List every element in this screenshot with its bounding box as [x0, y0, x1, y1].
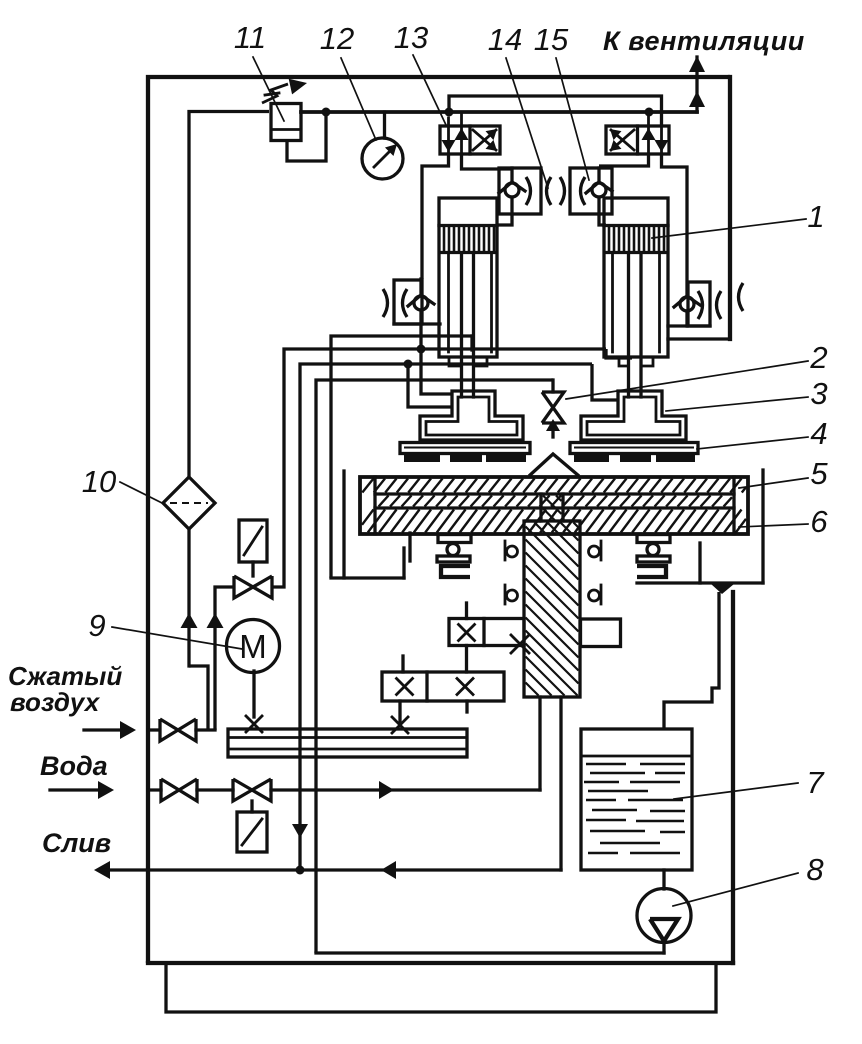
node supply junction	[322, 108, 331, 117]
directional valve 13 left	[440, 126, 500, 154]
check valve right side	[688, 282, 710, 326]
piston rod left	[460, 253, 463, 397]
wire right valve down right side	[662, 154, 688, 297]
svg-text:7: 7	[806, 765, 825, 800]
wire gearbox to screw clutch	[398, 701, 401, 724]
wire exhaust link line	[449, 96, 662, 126]
check valve left side	[394, 280, 422, 324]
node junction check-line	[417, 345, 426, 354]
svg-text:12: 12	[320, 21, 354, 56]
node junction feed-left-head	[404, 360, 413, 369]
check valve top-left	[499, 168, 541, 214]
svg-text:10: 10	[82, 464, 116, 499]
water inlet arrow	[50, 788, 104, 791]
wire motor shaft	[252, 671, 255, 717]
svg-text:2: 2	[809, 340, 827, 375]
cylinder left inner bore walls	[447, 253, 450, 352]
svg-text:11: 11	[234, 20, 266, 55]
gearbox upper (worm drive)	[449, 619, 524, 646]
pads right	[574, 454, 609, 462]
air filter 10	[163, 477, 215, 529]
wire air to control valve	[215, 587, 234, 730]
svg-text:Вода: Вода	[40, 751, 108, 781]
column bearing glyphs p q	[504, 541, 507, 560]
wire pump discharge line	[316, 951, 664, 954]
centering cone on table	[529, 454, 579, 476]
grinding head right	[581, 391, 686, 440]
check valve top-right	[570, 168, 612, 214]
wire riser pipe A	[272, 349, 606, 587]
wire top check valve to cylinder	[497, 214, 512, 225]
wire right circuit enclosure	[668, 337, 730, 340]
wire riser pipe D head line	[331, 336, 472, 578]
machine pedestal base	[166, 965, 716, 1012]
svg-text:4: 4	[810, 416, 827, 451]
cylinder right inner bore walls	[611, 253, 614, 352]
wire left valve to left check valve	[422, 154, 449, 279]
svg-text:1: 1	[807, 199, 824, 234]
piston left (hatched band)	[441, 251, 495, 254]
wire regulator bypass loop	[287, 114, 326, 161]
gearbox lower	[382, 672, 504, 701]
compressed air inlet arrow	[84, 728, 126, 731]
svg-text:3: 3	[810, 376, 827, 411]
frame junction triangle	[711, 584, 734, 594]
wire left valve to top check valve	[462, 154, 513, 169]
wire vent line to ventilation	[695, 57, 698, 112]
water control valve with actuator	[197, 788, 233, 791]
clutch X on column	[511, 635, 529, 653]
pressure regulator 11	[271, 104, 301, 141]
svg-text:К вентиляции: К вентиляции	[603, 26, 805, 56]
svg-text:Слив: Слив	[42, 828, 111, 858]
wire water line to spindle	[271, 788, 540, 791]
electric motor 9	[227, 620, 280, 673]
piston right (hatched band)	[606, 251, 666, 254]
directional valve right (15 group)	[606, 126, 669, 154]
lap plate left	[400, 443, 530, 454]
node drain junction	[296, 866, 305, 875]
piston rod right	[627, 253, 630, 397]
wire spindle coolant lines	[538, 697, 541, 790]
pressure gauge 12	[383, 112, 386, 138]
spindle column (hatched)	[539, 494, 542, 521]
svg-text:5: 5	[810, 456, 828, 491]
wire top-right check valve to cylinder	[599, 214, 606, 225]
valve 2 between heads	[551, 380, 554, 392]
cylinder left bottom steps	[449, 357, 461, 366]
grinding head left 3	[420, 391, 523, 440]
coolant tank 7	[581, 729, 692, 870]
control valve with actuator	[239, 520, 267, 562]
cylinder right bottom steps	[619, 357, 628, 366]
node junction left valve	[445, 108, 454, 117]
lap plate right	[570, 443, 698, 454]
machine cabinet outer frame	[148, 77, 730, 963]
wire main air line	[301, 110, 697, 114]
svg-text:8: 8	[806, 852, 824, 887]
wire left head feed drops	[408, 364, 452, 407]
pneumatic cylinder right 1	[604, 198, 668, 357]
svg-text:воздух: воздух	[10, 687, 101, 717]
shutoff valve water 1	[148, 788, 161, 791]
wire inner border riser	[189, 112, 269, 478]
bracket right of column	[581, 619, 621, 647]
svg-text:M: M	[239, 628, 267, 665]
node junction right valve	[645, 108, 654, 117]
svg-text:15: 15	[534, 22, 569, 57]
pneumatic cylinder left	[439, 198, 497, 357]
table slide frame left	[342, 471, 345, 578]
wire table frame to tank	[664, 592, 719, 729]
wire riser pipe B to drain	[300, 364, 592, 870]
lead screw bar	[228, 729, 467, 757]
bearing support right	[637, 535, 670, 543]
drain line	[94, 861, 110, 879]
pump 8	[662, 870, 665, 889]
svg-text:9: 9	[88, 608, 105, 643]
wire right valve to top check valve	[599, 154, 649, 166]
table sandwich 5 6 (hatched)	[360, 477, 748, 534]
bearing support left	[438, 535, 471, 543]
svg-text:6: 6	[810, 504, 828, 539]
wire riser pipe C to pump line	[316, 380, 553, 953]
pads left 4	[404, 454, 440, 462]
wire filter riser	[187, 529, 190, 666]
clutch X motor-screw	[246, 716, 262, 732]
svg-text:14: 14	[488, 22, 522, 57]
svg-text:13: 13	[394, 20, 428, 55]
table slide frame right	[761, 470, 764, 583]
shutoff valve air inlet	[148, 728, 159, 731]
